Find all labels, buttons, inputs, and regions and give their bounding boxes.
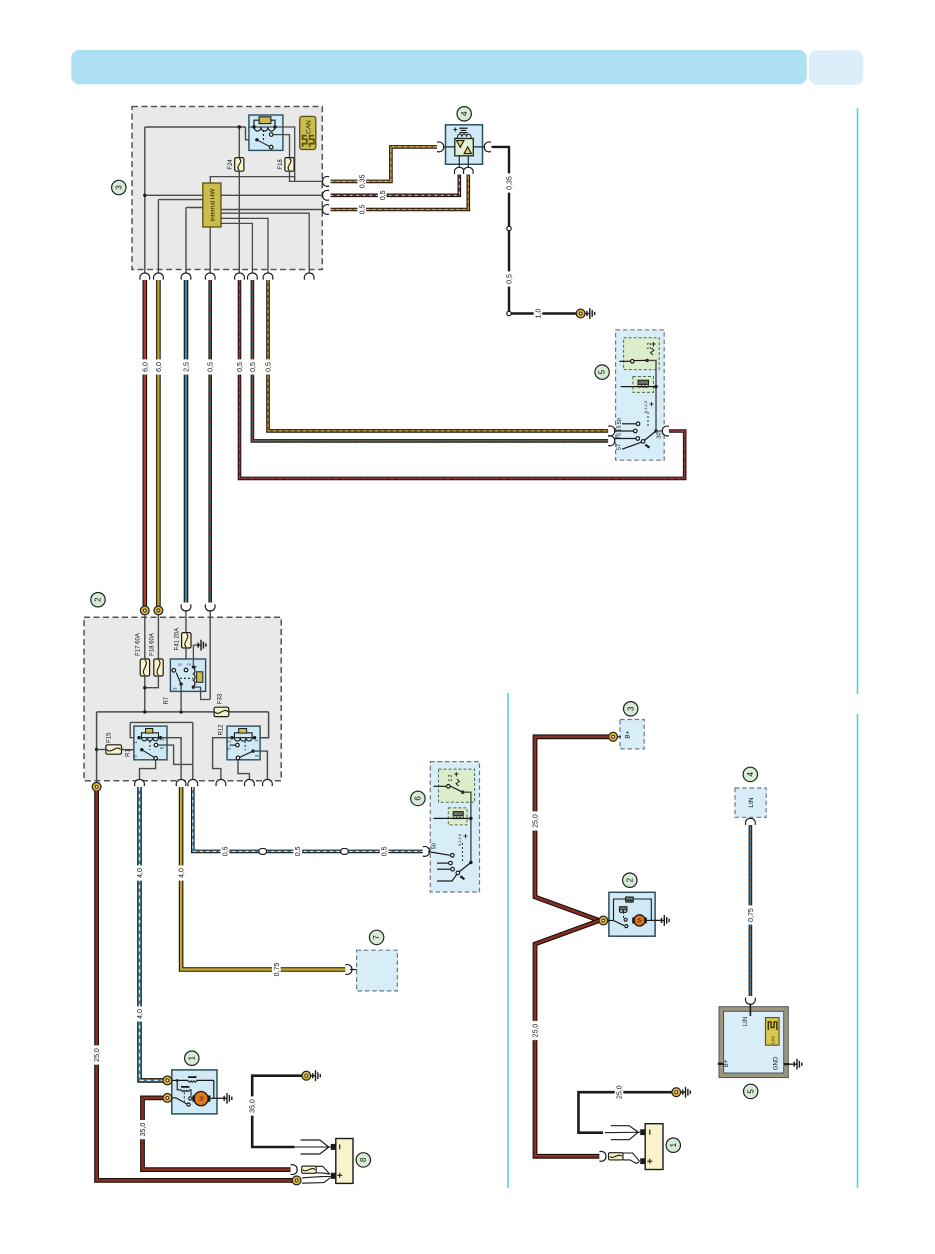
svg-text:internal HW: internal HW (210, 189, 217, 221)
svg-text:0,35: 0,35 (359, 174, 366, 188)
svg-text:3: 3 (626, 706, 635, 711)
svg-text:6,0: 6,0 (156, 362, 163, 372)
svg-text:F18 60A: F18 60A (149, 633, 155, 656)
svg-text:0,5: 0,5 (295, 846, 302, 856)
svg-text:6: 6 (414, 796, 423, 801)
svg-text:4,0: 4,0 (179, 868, 186, 878)
svg-text:0,5: 0,5 (223, 846, 230, 856)
svg-text:3: 3 (114, 185, 123, 190)
svg-text:R1: R1 (126, 749, 132, 757)
svg-text:5: 5 (746, 1089, 755, 1094)
svg-text:M: M (199, 1096, 205, 1101)
svg-text:0,5: 0,5 (382, 846, 389, 856)
svg-text:1,0: 1,0 (536, 309, 543, 319)
svg-text:0,1,2,3: 0,1,2,3 (457, 833, 462, 846)
svg-text:0,5: 0,5 (266, 362, 273, 372)
svg-text:0,1,2,3: 0,1,2,3 (643, 400, 648, 413)
svg-text:0,5: 0,5 (208, 362, 215, 372)
svg-text:25,0: 25,0 (94, 1048, 101, 1062)
svg-text:7: 7 (372, 935, 381, 940)
svg-text:57: 57 (617, 444, 623, 450)
svg-text:R7: R7 (164, 696, 170, 704)
svg-text:50: 50 (617, 418, 623, 424)
svg-text:0,5: 0,5 (237, 362, 244, 372)
svg-text:F18: F18 (278, 159, 284, 170)
svg-text:75: 75 (617, 433, 623, 439)
svg-text:4: 4 (746, 772, 755, 777)
svg-text:0,75: 0,75 (274, 963, 281, 977)
svg-text:B+: B+ (625, 730, 632, 738)
svg-text:2,5: 2,5 (184, 362, 191, 372)
svg-text:25,0: 25,0 (533, 1024, 540, 1038)
svg-text:F33: F33 (218, 693, 224, 704)
svg-text:F17 60A: F17 60A (135, 633, 141, 656)
svg-text:4,0: 4,0 (137, 1009, 144, 1019)
svg-text:15: 15 (617, 425, 623, 431)
svg-text:F15: F15 (106, 732, 112, 743)
svg-text:4: 4 (460, 111, 469, 116)
svg-text:25,0: 25,0 (617, 1085, 624, 1099)
svg-text:1: 1 (187, 1055, 196, 1060)
svg-text:0,5: 0,5 (359, 205, 366, 215)
svg-text:35,0: 35,0 (140, 1123, 147, 1137)
svg-text:LIN: LIN (770, 1036, 776, 1044)
svg-text:30: 30 (657, 432, 663, 438)
svg-text:4,0: 4,0 (137, 868, 144, 878)
svg-text:0,5: 0,5 (507, 274, 514, 284)
svg-text:0,5: 0,5 (380, 190, 387, 200)
svg-text:LIN: LIN (743, 1017, 749, 1026)
svg-text:25,0: 25,0 (533, 814, 540, 828)
svg-text:M: M (637, 918, 643, 922)
svg-text:GND: GND (774, 1056, 780, 1070)
svg-text:0,5: 0,5 (250, 362, 257, 372)
svg-text:F41 20A: F41 20A (175, 628, 181, 651)
svg-text:8: 8 (359, 1157, 368, 1162)
svg-text:5: 5 (598, 369, 607, 374)
svg-text:0,35: 0,35 (507, 176, 514, 190)
svg-text:B+: B+ (724, 1059, 730, 1067)
svg-text:F24: F24 (228, 159, 234, 170)
svg-text:2: 2 (94, 597, 103, 602)
svg-text:6,0: 6,0 (142, 362, 149, 372)
svg-text:1: 1 (669, 1142, 678, 1147)
svg-text:50: 50 (431, 843, 437, 849)
svg-text:LIN: LIN (748, 797, 755, 807)
svg-text:CAN: CAN (305, 120, 312, 134)
svg-text:35,0: 35,0 (250, 1099, 257, 1113)
svg-text:2: 2 (625, 877, 634, 882)
svg-text:0,75: 0,75 (748, 908, 755, 922)
svg-text:R12: R12 (218, 724, 224, 736)
svg-text:1 2: 1 2 (448, 774, 454, 781)
